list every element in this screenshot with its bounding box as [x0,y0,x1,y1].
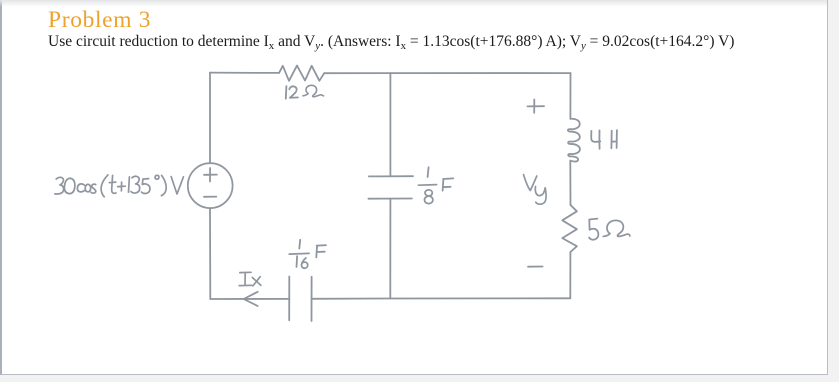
wire bottom-middle segment [312,298,391,300]
label F of 1/8 [443,178,454,190]
wire bottom-right segment [390,297,570,299]
wire middle branch lower [389,199,391,299]
label Vy [524,175,547,205]
label omega of 12ohm [303,85,324,96]
wire left upper [209,73,211,164]
capacitor C2 1/16F plates [289,277,311,322]
wire right upper [569,73,571,119]
wire right middle [569,161,571,205]
wire middle branch upper [389,73,391,176]
label 4H [591,130,617,149]
label 1 of 1/8 [428,167,429,177]
minus sign inside source [204,196,216,198]
fraction bar of 1/16 [289,252,309,255]
wire top-right segment [324,72,570,74]
capacitor C1 1/8F plates [368,176,413,199]
voltage source VS1 circle [188,163,233,208]
wire bottom-left segment [210,298,289,300]
plus sign of Vy [528,100,545,113]
label 5 of 5ohm [589,219,598,240]
label 16 of 1/16 [297,256,308,268]
label Ix [239,272,261,286]
label F of 1/16 [316,245,326,257]
current arrow Ix head [244,292,258,306]
wire top-left segment [210,72,279,74]
label omega of 5ohm [603,220,630,236]
fraction bar of 1/8 [418,184,436,187]
minus sign of Vy [528,266,543,268]
wire right lower [569,252,571,298]
resistor R1 12ohm zigzag [279,66,324,81]
label 1 of 1/16 [298,240,301,249]
plus sign inside source [204,168,217,182]
resistor R2 5ohm zigzag [562,205,577,252]
inductor L1 4H coil [568,119,580,162]
label 8 of 1/8 [424,190,432,204]
label 12 of 12ohm [286,86,298,99]
label 30cos(t+135)V [55,175,184,197]
wire left lower [209,208,211,299]
